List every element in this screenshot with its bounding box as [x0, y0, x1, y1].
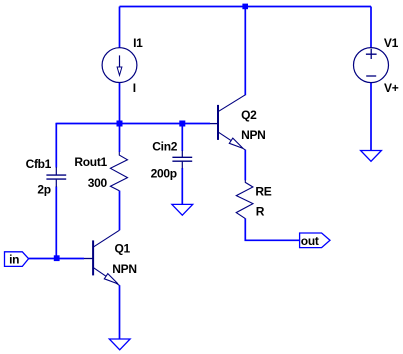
wire Cin2 top lead — [181, 124, 183, 152]
svg-text:Rout1: Rout1 — [74, 155, 107, 169]
svg-text:Q1: Q1 — [115, 241, 131, 255]
capacitor Cin2 plates — [172, 157, 192, 161]
wire Cfb1 top lead — [55, 124, 57, 168]
svg-text:I1: I1 — [133, 36, 143, 50]
ground under Q1 — [109, 339, 130, 350]
transistor Q2 collector diagonal — [218, 95, 245, 112]
node junction at in wire — [54, 255, 60, 261]
current source I1 arrow — [119, 55, 121, 67]
transistor Q2 base bar — [217, 105, 219, 140]
wire I1 top lead — [119, 7, 121, 49]
resistor Rout1 zigzag — [110, 152, 127, 191]
node junction at Rout1 top — [117, 121, 123, 127]
svg-text:V+: V+ — [384, 81, 399, 95]
capacitor Cfb1 lead bottom — [55, 180, 57, 187]
ground under Cin2 — [172, 204, 193, 215]
svg-text:out: out — [301, 234, 319, 248]
svg-text:300: 300 — [88, 176, 108, 190]
wire Q2 collector — [244, 7, 246, 96]
transistor Q1 base bar — [92, 240, 94, 275]
wire Cin2 bottom lead — [181, 168, 183, 204]
wire Cfb1 bottom lead — [55, 187, 57, 259]
svg-text:2p: 2p — [37, 183, 50, 197]
wire top rail — [120, 6, 372, 8]
wire mid horizontal rail — [56, 122, 210, 125]
svg-text:NPN: NPN — [112, 262, 136, 276]
transistor Q2 emitter diagonal — [218, 132, 245, 150]
svg-text:in: in — [9, 253, 19, 267]
node junction at Cin2 top — [179, 121, 185, 127]
wire Q2 emitter to RE — [244, 150, 246, 181]
capacitor Cfb1 plates — [46, 175, 66, 179]
wire RE bottom to out — [245, 218, 299, 240]
capacitor Cfb1 lead top — [55, 167, 57, 175]
capacitor Cin2 lead top — [181, 151, 183, 158]
svg-text:R: R — [256, 205, 265, 219]
svg-text:Cfb1: Cfb1 — [26, 157, 52, 171]
wire Rout1 bottom to Q1 collector — [119, 191, 121, 231]
wire Q2 base navy lead — [210, 123, 218, 125]
resistor RE zigzag — [236, 180, 253, 219]
svg-text:I: I — [133, 81, 136, 95]
V1 minus sign — [366, 75, 376, 77]
wire V1 bottom lead — [370, 82, 372, 150]
V1 plus sign — [366, 49, 377, 59]
wire Q1 base navy lead — [84, 258, 93, 260]
wire in to Q1 base — [29, 258, 84, 260]
svg-text:V1: V1 — [384, 36, 399, 50]
node junction at top rail — [242, 4, 248, 10]
transistor Q2 emitter arrow — [229, 138, 243, 148]
wire V1 top lead — [370, 7, 372, 49]
svg-text:RE: RE — [255, 184, 271, 198]
svg-text:Cin2: Cin2 — [152, 139, 177, 153]
svg-text:200p: 200p — [151, 167, 177, 181]
wire Rout1 top lead — [119, 124, 121, 153]
capacitor Cin2 lead bottom — [181, 162, 183, 169]
wire Q1 emitter to ground — [119, 285, 121, 339]
wire I1 bottom lead — [119, 82, 121, 123]
voltage source V1 circle — [354, 48, 389, 83]
svg-text:Q2: Q2 — [241, 108, 257, 122]
ground under V1 — [361, 151, 382, 162]
current source I1 circle — [102, 48, 137, 83]
svg-text:NPN: NPN — [241, 128, 265, 142]
transistor Q1 emitter arrow — [104, 274, 118, 284]
transistor Q1 collector diagonal — [93, 230, 119, 247]
port out tag — [300, 233, 330, 248]
transistor Q1 emitter diagonal — [93, 267, 119, 285]
port in tag — [5, 252, 29, 267]
